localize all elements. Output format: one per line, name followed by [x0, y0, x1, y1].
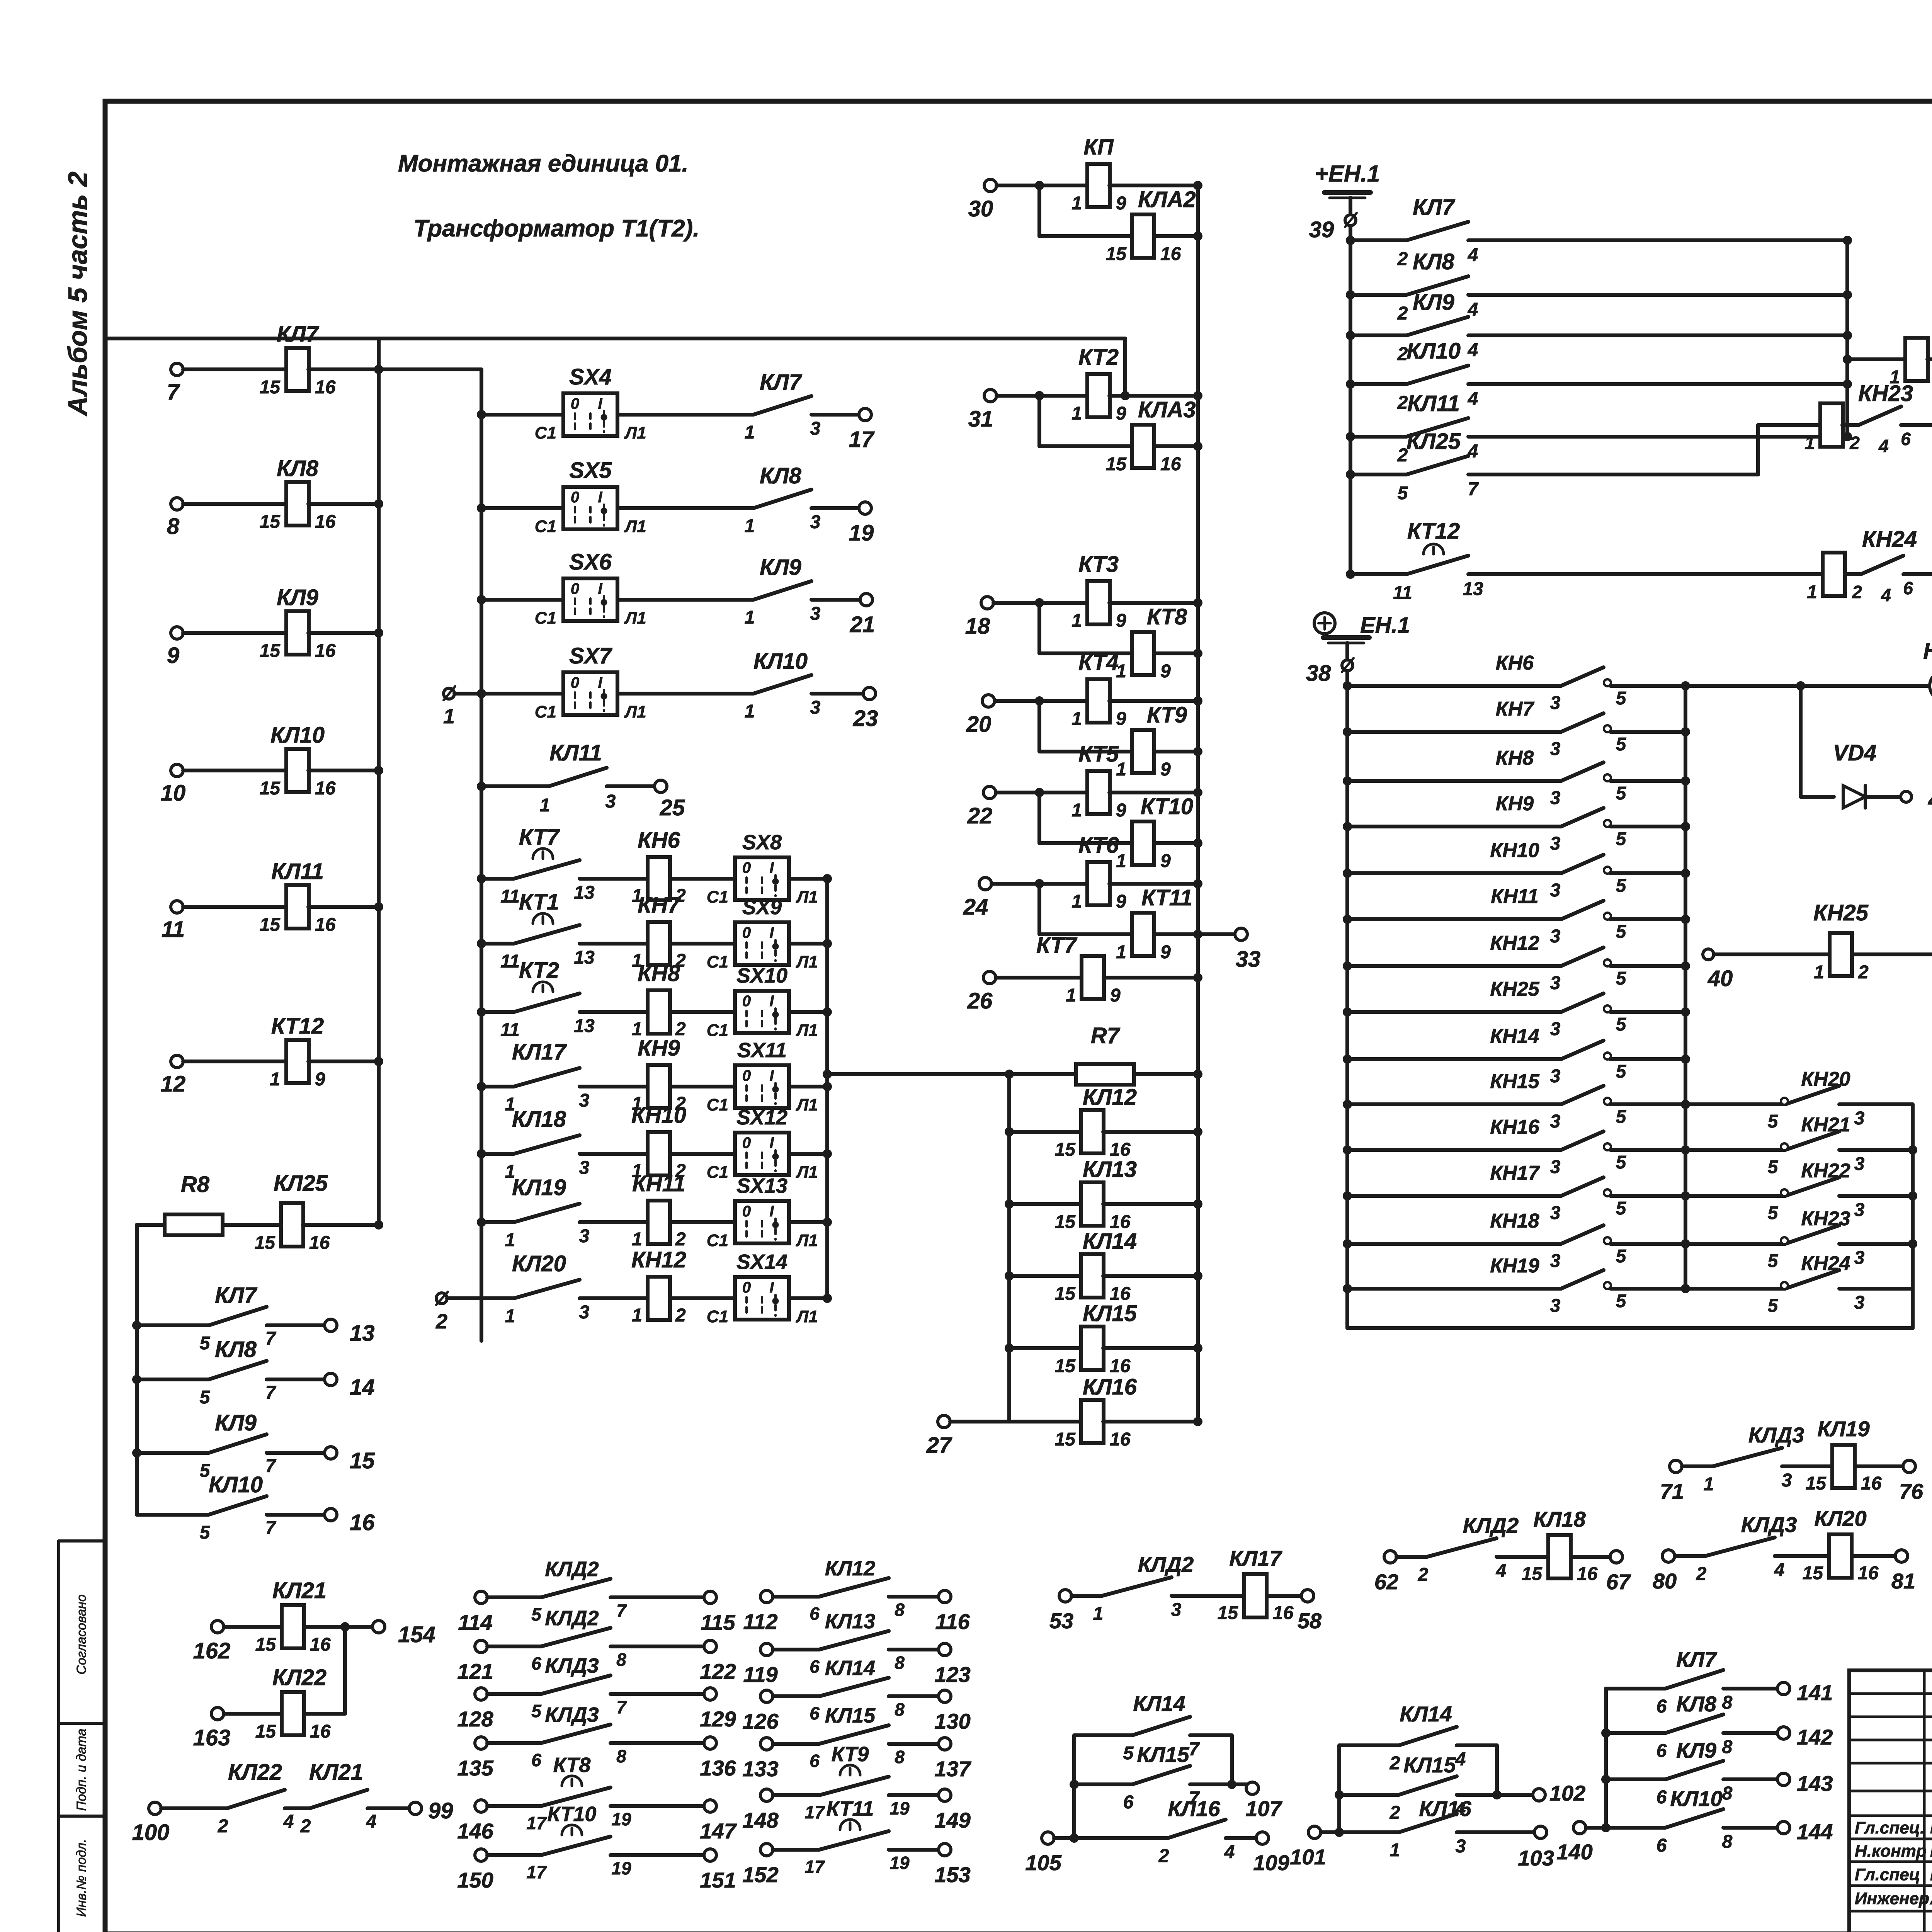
- svg-text:135: 135: [457, 1756, 493, 1780]
- svg-text:15: 15: [1522, 1564, 1543, 1584]
- svg-text:КТ9: КТ9: [1147, 702, 1187, 728]
- svg-text:15: 15: [255, 1721, 277, 1742]
- svg-text:1: 1: [745, 516, 755, 536]
- svg-text:5: 5: [1616, 1152, 1627, 1173]
- svg-text:7: 7: [167, 379, 180, 405]
- contact КЛ15 6-8 terminals 133-137: [760, 1738, 773, 1750]
- svg-text:119: 119: [743, 1662, 777, 1687]
- contact КЛ9 5-7 to terminal 15: [132, 1448, 141, 1458]
- svg-text:КН6: КН6: [638, 828, 680, 853]
- svg-text:1: 1: [1814, 962, 1824, 983]
- svg-text:11: 11: [162, 917, 185, 942]
- svg-text:КН24: КН24: [1862, 527, 1917, 552]
- KL coil column left bus: [1007, 1074, 1011, 1422]
- svg-text:3: 3: [810, 418, 821, 439]
- svg-text:3: 3: [1550, 693, 1561, 713]
- svg-text:3: 3: [810, 604, 821, 624]
- svg-text:КЛ18: КЛ18: [512, 1107, 566, 1132]
- svg-text:16: 16: [315, 778, 336, 799]
- svg-text:КТ5: КТ5: [1078, 742, 1119, 767]
- svg-text:3: 3: [1550, 1019, 1561, 1039]
- svg-text:КЛ14: КЛ14: [1133, 1691, 1185, 1716]
- svg-text:КТ11: КТ11: [827, 1797, 874, 1820]
- svg-text:КН12: КН12: [631, 1247, 686, 1272]
- svg-text:17: 17: [526, 1862, 547, 1882]
- svg-text:13: 13: [350, 1321, 375, 1346]
- svg-text:8: 8: [616, 1746, 626, 1766]
- terminal 109: [1256, 1832, 1269, 1844]
- relay coil КЛ13: [1005, 1199, 1014, 1209]
- svg-text:КН14: КН14: [1490, 1025, 1539, 1048]
- wire drop to КТ10 rail: [1037, 793, 1041, 843]
- svg-text:16: 16: [315, 377, 336, 398]
- svg-text:КЛ9: КЛ9: [277, 585, 318, 610]
- svg-text:КЛ10: КЛ10: [1670, 1786, 1722, 1811]
- svg-text:SX9: SX9: [742, 896, 782, 919]
- svg-text:81: 81: [1891, 1569, 1915, 1593]
- svg-text:КН9: КН9: [638, 1036, 680, 1061]
- svg-text:8: 8: [167, 514, 180, 539]
- svg-text:15: 15: [350, 1448, 375, 1473]
- svg-text:2: 2: [435, 1310, 447, 1333]
- svg-text:41: 41: [1928, 787, 1932, 813]
- contact КТ2 with coil КН8 and switch SX10: [477, 1007, 486, 1017]
- svg-text:КТ8: КТ8: [553, 1753, 591, 1777]
- diode VD4 to terminal 41: [1799, 686, 1803, 797]
- svg-text:16: 16: [1160, 454, 1181, 474]
- svg-text:39: 39: [1309, 217, 1334, 242]
- terminal 26 with coil КТ7: [983, 971, 996, 984]
- svg-text:9: 9: [1160, 851, 1171, 871]
- terminal 39: [1345, 215, 1356, 226]
- wire drop to КТ9 rail: [1037, 701, 1041, 752]
- svg-text:4: 4: [283, 1811, 294, 1832]
- svg-text:18: 18: [965, 614, 990, 639]
- contact КЛ25 5-7: [1346, 470, 1355, 479]
- svg-text:7: 7: [265, 1518, 277, 1538]
- lamp HL1 row: [1685, 684, 1801, 688]
- svg-text:КЛ15: КЛ15: [1083, 1301, 1137, 1326]
- svg-text:7: 7: [1468, 479, 1479, 500]
- svg-text:1: 1: [1071, 193, 1082, 214]
- contact КН20 5-3: [1685, 1102, 1785, 1106]
- svg-text:КН22: КН22: [1801, 1160, 1850, 1182]
- svg-text:3: 3: [1854, 1293, 1865, 1313]
- svg-text:SX12: SX12: [736, 1106, 787, 1129]
- svg-text:КЛ13: КЛ13: [1083, 1157, 1137, 1182]
- svg-text:24: 24: [963, 895, 988, 920]
- svg-text:КЛ17: КЛ17: [1229, 1546, 1282, 1570]
- svg-text:I: I: [769, 1067, 774, 1084]
- svg-text:12: 12: [161, 1071, 186, 1097]
- svg-text:КЛ8: КЛ8: [277, 456, 319, 481]
- relay coil КЛА2: [1039, 234, 1132, 238]
- relay coil КТ4: [1039, 699, 1088, 703]
- wire drop to КТ8 rail: [1037, 603, 1041, 653]
- svg-text:SX11: SX11: [737, 1039, 787, 1062]
- svg-text:КЛ25: КЛ25: [274, 1171, 328, 1196]
- relay coil КЛА3: [1039, 444, 1132, 448]
- left sub-bus for contact rows 13-16: [135, 1225, 139, 1515]
- svg-text:Л1: Л1: [796, 1095, 818, 1114]
- svg-text:КН12: КН12: [1490, 932, 1539, 954]
- svg-text:1: 1: [1390, 1840, 1400, 1861]
- bus +EH.1: [1349, 198, 1352, 574]
- svg-text:9: 9: [1116, 709, 1126, 729]
- svg-text:6: 6: [1901, 429, 1911, 449]
- wire drop to КТ11 rail: [1037, 884, 1041, 934]
- svg-text:9: 9: [1116, 193, 1126, 214]
- contact КЛ15 6-7: [1070, 1780, 1079, 1789]
- svg-text:I: I: [598, 674, 602, 691]
- svg-text:КЛ15: КЛ15: [1403, 1753, 1456, 1777]
- svg-text:КЛ8: КЛ8: [1413, 249, 1455, 274]
- svg-text:SX14: SX14: [736, 1250, 787, 1274]
- svg-text:4: 4: [1468, 340, 1478, 361]
- svg-text:SX4: SX4: [569, 364, 612, 389]
- svg-text:3: 3: [1782, 1470, 1792, 1491]
- svg-text:КТ6: КТ6: [1078, 833, 1119, 858]
- svg-text:Л1: Л1: [796, 1307, 818, 1326]
- svg-text:15: 15: [255, 1634, 277, 1655]
- svg-text:71: 71: [1660, 1479, 1684, 1503]
- svg-text:142: 142: [1797, 1725, 1833, 1749]
- svg-text:5: 5: [1616, 1198, 1627, 1219]
- svg-text:30: 30: [968, 196, 993, 221]
- svg-text:7: 7: [265, 1383, 277, 1403]
- svg-text:9: 9: [1160, 661, 1171, 682]
- svg-text:115: 115: [701, 1610, 735, 1634]
- svg-text:С1: С1: [535, 702, 556, 721]
- svg-text:Л1: Л1: [624, 609, 646, 628]
- relay coil КЛ10 row terminal 10: [171, 764, 183, 777]
- svg-text:100: 100: [132, 1820, 170, 1845]
- relay coil КЛ21 terminal 162: [211, 1621, 224, 1633]
- svg-text:КТ7: КТ7: [519, 825, 560, 850]
- contact КЛ18 with coil КН10 and switch SX12: [477, 1149, 486, 1158]
- svg-text:С1: С1: [535, 423, 556, 442]
- contact КН15 3-5: [1343, 1100, 1352, 1109]
- svg-text:1: 1: [632, 1229, 642, 1250]
- svg-text:КН21: КН21: [1801, 1114, 1850, 1136]
- svg-text:0: 0: [571, 674, 579, 691]
- svg-text:КТ2: КТ2: [519, 958, 559, 983]
- svg-text:1: 1: [1071, 611, 1082, 631]
- svg-text:3: 3: [1550, 833, 1561, 854]
- svg-text:КЛ8: КЛ8: [760, 463, 802, 488]
- svg-text:1: 1: [1804, 433, 1815, 453]
- svg-text:I: I: [769, 993, 774, 1010]
- svg-text:0: 0: [571, 395, 579, 412]
- wire ladder to R7: [827, 1072, 1009, 1076]
- svg-text:3: 3: [579, 1302, 590, 1323]
- svg-text:SX7: SX7: [569, 643, 612, 668]
- svg-text:3: 3: [1456, 1836, 1466, 1857]
- contact КН12 3-5: [1343, 961, 1352, 971]
- svg-text:3: 3: [605, 791, 616, 812]
- svg-text:Л1: Л1: [796, 888, 818, 906]
- svg-text:КЛ14: КЛ14: [1400, 1702, 1452, 1726]
- relay coil КЛ16: [1009, 1420, 1082, 1423]
- svg-text:2: 2: [1389, 1753, 1400, 1774]
- svg-text:109: 109: [1253, 1850, 1289, 1875]
- svg-text:КН6: КН6: [1496, 652, 1534, 674]
- svg-text:151: 151: [700, 1868, 736, 1892]
- svg-text:SX13: SX13: [736, 1174, 787, 1197]
- svg-text:153: 153: [934, 1862, 970, 1887]
- wire drop to КЛА2 rail: [1037, 185, 1041, 236]
- svg-text:5: 5: [1616, 968, 1627, 989]
- svg-text:КТ10: КТ10: [548, 1803, 597, 1826]
- svg-text:5: 5: [1398, 483, 1408, 503]
- svg-text:КЛ18: КЛ18: [1533, 1507, 1586, 1531]
- svg-text:0: 0: [742, 859, 751, 876]
- relay coil КТ9: [1039, 750, 1132, 753]
- svg-text:КН11: КН11: [632, 1171, 685, 1196]
- svg-text:КТ2: КТ2: [1078, 345, 1119, 370]
- svg-text:1: 1: [632, 1305, 642, 1326]
- svg-text:КЛ20: КЛ20: [1814, 1506, 1866, 1531]
- svg-text:0: 0: [571, 580, 579, 597]
- svg-text:5: 5: [531, 1701, 542, 1721]
- svg-text:13: 13: [574, 947, 595, 968]
- svg-text:КЛ19: КЛ19: [512, 1175, 566, 1200]
- svg-text:Альбом 5 часть 2: Альбом 5 часть 2: [63, 172, 93, 417]
- svg-text:4: 4: [1774, 1560, 1785, 1580]
- relay coil КТ2: [1039, 394, 1088, 398]
- svg-text:15: 15: [1055, 1356, 1076, 1376]
- svg-text:17: 17: [849, 427, 875, 452]
- svg-text:143: 143: [1797, 1771, 1833, 1796]
- contact КН11 3-5: [1343, 915, 1352, 924]
- contact КН7 3-5: [1343, 727, 1352, 736]
- svg-text:5: 5: [1616, 922, 1627, 942]
- svg-text:11: 11: [500, 886, 520, 907]
- svg-text:5: 5: [1616, 829, 1627, 849]
- svg-text:+ЕН.1: +ЕН.1: [1315, 161, 1380, 187]
- svg-text:6: 6: [1123, 1792, 1134, 1813]
- svg-text:Инв.№ подл.: Инв.№ подл.: [74, 1839, 89, 1917]
- terminal 1 (phase input): [444, 688, 454, 699]
- svg-text:4: 4: [1468, 245, 1478, 265]
- svg-text:I: I: [769, 1134, 774, 1151]
- terminal 30: [984, 179, 997, 192]
- svg-text:Л1: Л1: [796, 1021, 818, 1040]
- svg-text:КН23: КН23: [1801, 1207, 1850, 1230]
- svg-text:КЛД2: КЛД2: [1138, 1552, 1194, 1577]
- contact КЛ13 6-8 terminals 119-123: [760, 1643, 773, 1656]
- svg-text:17: 17: [804, 1857, 825, 1877]
- svg-text:КЛ11: КЛ11: [271, 859, 324, 884]
- relay coil КЛ8 row terminal 8: [171, 498, 183, 510]
- relay coil КЛ9 row terminal 9: [171, 627, 183, 639]
- svg-text:15: 15: [1055, 1139, 1076, 1160]
- svg-text:С1: С1: [707, 952, 728, 971]
- svg-text:0: 0: [742, 1067, 751, 1084]
- svg-text:5: 5: [1616, 1246, 1627, 1267]
- svg-text:3: 3: [1854, 1108, 1865, 1129]
- svg-text:КТ4: КТ4: [1078, 650, 1119, 675]
- relay coil КТ3: [1039, 601, 1088, 605]
- svg-text:149: 149: [934, 1808, 970, 1832]
- contact КТ9 17-19 terminals 148-149: [760, 1789, 773, 1801]
- svg-text:КТ3: КТ3: [1078, 552, 1119, 577]
- svg-text:КН11: КН11: [1491, 885, 1539, 908]
- contact group КЛ14/КЛ15/КЛ16 terminals 105-109: [1042, 1832, 1054, 1844]
- svg-text:2: 2: [1397, 303, 1408, 324]
- relay coil КП: [1039, 184, 1088, 187]
- contact КЛД3 6-8 terminals 135-136: [475, 1737, 487, 1749]
- svg-text:КН8: КН8: [638, 961, 680, 986]
- svg-text:15: 15: [260, 377, 281, 398]
- svg-text:КН16: КН16: [1490, 1116, 1539, 1138]
- svg-text:КЛ16: КЛ16: [1168, 1796, 1220, 1821]
- svg-text:Л1: Л1: [624, 423, 646, 442]
- svg-text:16: 16: [1110, 1356, 1131, 1376]
- svg-text:КЛД2: КЛД2: [1463, 1513, 1519, 1537]
- svg-text:3: 3: [1550, 1157, 1561, 1177]
- svg-text:3: 3: [1171, 1600, 1182, 1620]
- svg-text:8: 8: [1722, 1692, 1733, 1713]
- svg-text:16: 16: [310, 1721, 331, 1742]
- svg-text:6: 6: [1656, 1787, 1667, 1808]
- svg-text:КЛА3: КЛА3: [1138, 397, 1196, 422]
- svg-text:КЛ8: КЛ8: [1676, 1692, 1717, 1716]
- svg-text:19: 19: [849, 520, 874, 546]
- contact КЛ7 6-8 to terminal 141: [1606, 1687, 1665, 1690]
- svg-text:16: 16: [309, 1233, 330, 1253]
- terminal 103: [1534, 1826, 1547, 1838]
- svg-text:148: 148: [742, 1808, 779, 1832]
- relay coil КТ12 row terminal 12: [171, 1055, 183, 1068]
- svg-text:121: 121: [457, 1659, 493, 1684]
- svg-text:КН8: КН8: [1496, 747, 1534, 769]
- svg-text:5: 5: [531, 1604, 542, 1624]
- svg-text:3: 3: [1550, 788, 1561, 808]
- SX ladder vertical bus: [480, 369, 483, 1341]
- svg-text:I: I: [598, 489, 602, 506]
- svg-text:КЛД3: КЛД3: [545, 1654, 599, 1677]
- contact КЛ12 6-8 terminals 112-116: [760, 1590, 773, 1603]
- terminal 24: [979, 878, 992, 890]
- svg-text:КЛ14: КЛ14: [1083, 1229, 1137, 1254]
- terminal 107: [1246, 1782, 1259, 1794]
- svg-text:С1: С1: [707, 1021, 728, 1040]
- svg-text:5: 5: [1616, 1061, 1627, 1082]
- svg-text:5: 5: [1768, 1111, 1779, 1132]
- svg-text:16: 16: [1160, 244, 1181, 264]
- wire to +EH right bus: [1468, 293, 1847, 297]
- svg-text:С1: С1: [535, 609, 556, 628]
- svg-text:3: 3: [1550, 1251, 1561, 1271]
- contact КЛД2 5-7 terminals 114-115: [475, 1591, 487, 1604]
- svg-text:6: 6: [531, 1750, 541, 1770]
- svg-text:3: 3: [1854, 1154, 1865, 1174]
- svg-text:3: 3: [810, 512, 821, 532]
- svg-text:1: 1: [443, 705, 455, 728]
- svg-text:15: 15: [260, 641, 281, 661]
- svg-text:6: 6: [1903, 578, 1913, 598]
- switch SX7: [477, 689, 486, 698]
- svg-text:Гл.спец.: Гл.спец.: [1855, 1818, 1925, 1837]
- contact КЛ8 2-4: [1346, 290, 1355, 299]
- contact КН22 5-3: [1685, 1194, 1785, 1198]
- wire to +EH right bus: [1468, 382, 1847, 386]
- contact КЛ11 2-4: [1346, 432, 1355, 441]
- contact КТ10 17-19 terminals 150-151: [475, 1849, 487, 1861]
- contact КЛ17 with coil КН9 and switch SX11: [477, 1082, 486, 1091]
- svg-text:5: 5: [1768, 1296, 1779, 1316]
- contact КТ7 with coil КН6 and switch SX8: [477, 874, 486, 883]
- svg-text:КЛ25: КЛ25: [1406, 429, 1461, 454]
- svg-text:62: 62: [1374, 1570, 1398, 1594]
- svg-text:5: 5: [1616, 876, 1627, 896]
- relay coil КТ6: [1039, 882, 1088, 886]
- svg-text:С1: С1: [707, 1231, 728, 1250]
- svg-text:КН10: КН10: [631, 1103, 686, 1128]
- svg-text:16: 16: [1110, 1429, 1131, 1450]
- contact КЛ16 1-3: [1339, 1830, 1399, 1834]
- svg-text:3: 3: [1550, 1111, 1561, 1132]
- svg-text:7: 7: [265, 1456, 277, 1476]
- switch SX6: [477, 595, 486, 604]
- relay coil КЛ11 row terminal 11: [171, 901, 183, 913]
- svg-text:7: 7: [1189, 1739, 1200, 1760]
- terminal 33: [1235, 928, 1247, 940]
- svg-text:Н.контр: Н.контр: [1855, 1842, 1927, 1861]
- svg-text:3: 3: [1550, 1066, 1561, 1087]
- svg-text:КН25: КН25: [1490, 978, 1539, 1000]
- svg-text:КТ10: КТ10: [1141, 794, 1193, 819]
- svg-text:КП: КП: [1083, 134, 1114, 160]
- terminal 18: [981, 597, 993, 609]
- svg-text:9: 9: [1116, 403, 1126, 424]
- svg-text:105: 105: [1025, 1850, 1061, 1875]
- contact КЛ8 6-8 to terminal 142: [1601, 1728, 1611, 1738]
- svg-text:7: 7: [265, 1328, 277, 1349]
- svg-text:20: 20: [966, 712, 992, 737]
- svg-text:16: 16: [1858, 1563, 1879, 1583]
- svg-text:КЛД2: КЛД2: [545, 1607, 599, 1630]
- svg-text:2: 2: [300, 1816, 311, 1837]
- svg-text:8: 8: [895, 1699, 905, 1719]
- switch SX5: [477, 503, 486, 513]
- svg-text:15: 15: [1055, 1429, 1076, 1450]
- contact КЛ8 5-7 to terminal 14: [132, 1375, 141, 1384]
- svg-text:2: 2: [1696, 1564, 1707, 1584]
- svg-text:5: 5: [1616, 1014, 1627, 1035]
- svg-text:162: 162: [193, 1638, 231, 1663]
- row КН24 with R19 (КТ12 row): [1468, 572, 1823, 576]
- svg-text:137: 137: [934, 1757, 971, 1781]
- svg-text:107: 107: [1245, 1796, 1282, 1821]
- contact КЛД3 with coil КЛ20 terminals 80-81: [1662, 1550, 1675, 1562]
- svg-text:КЛ11: КЛ11: [1407, 391, 1460, 416]
- svg-text:136: 136: [700, 1756, 736, 1780]
- svg-text:Гл.спец: Гл.спец: [1855, 1865, 1920, 1884]
- contact КН10 3-5: [1343, 869, 1352, 878]
- svg-text:5: 5: [1616, 734, 1627, 755]
- svg-text:КН25: КН25: [1813, 900, 1869, 925]
- svg-text:16: 16: [315, 915, 336, 935]
- row КН23 with R18: [1468, 473, 1758, 476]
- +EH right bus: [1845, 240, 1849, 437]
- svg-text:9: 9: [1116, 611, 1126, 631]
- svg-text:154: 154: [398, 1622, 435, 1647]
- wire row7 to SX ladder bus: [379, 367, 481, 371]
- svg-text:R7: R7: [1091, 1023, 1121, 1048]
- svg-text:16: 16: [350, 1510, 375, 1535]
